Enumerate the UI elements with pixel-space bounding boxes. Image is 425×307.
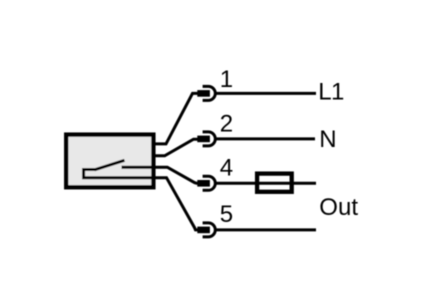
svg-text:N: N — [319, 126, 336, 153]
svg-text:Out: Out — [319, 194, 358, 221]
wire 2 to N — [216, 137, 315, 140]
connector pin 2 plug — [197, 136, 210, 143]
wire 5 output — [216, 228, 316, 231]
connector pin 1 socket — [203, 86, 216, 100]
svg-text:1: 1 — [220, 66, 233, 93]
switch bracket + wire to pin 5 — [84, 170, 199, 230]
connector pin 2 socket — [203, 132, 216, 146]
fuse F1 — [257, 174, 292, 192]
device box — [66, 135, 153, 188]
connector pin 4 socket — [203, 176, 216, 190]
wire 1 to L1 — [216, 92, 316, 95]
svg-text:2: 2 — [220, 111, 233, 138]
svg-text:L1: L1 — [318, 79, 344, 106]
wire 4 through fuse — [216, 182, 316, 185]
svg-text:5: 5 — [220, 201, 233, 228]
switch fixed contact line (to pin 4) — [122, 167, 199, 183]
wire to pin 2 — [154, 139, 199, 156]
switch lever — [95, 160, 125, 170]
connector pin 5 socket — [203, 223, 216, 237]
svg-text:4: 4 — [220, 155, 233, 182]
connector pin 4 plug — [197, 180, 210, 187]
wire to pin 1 — [154, 93, 199, 143]
connector pin 1 plug — [197, 90, 210, 97]
connector pin 5 plug — [197, 227, 210, 234]
